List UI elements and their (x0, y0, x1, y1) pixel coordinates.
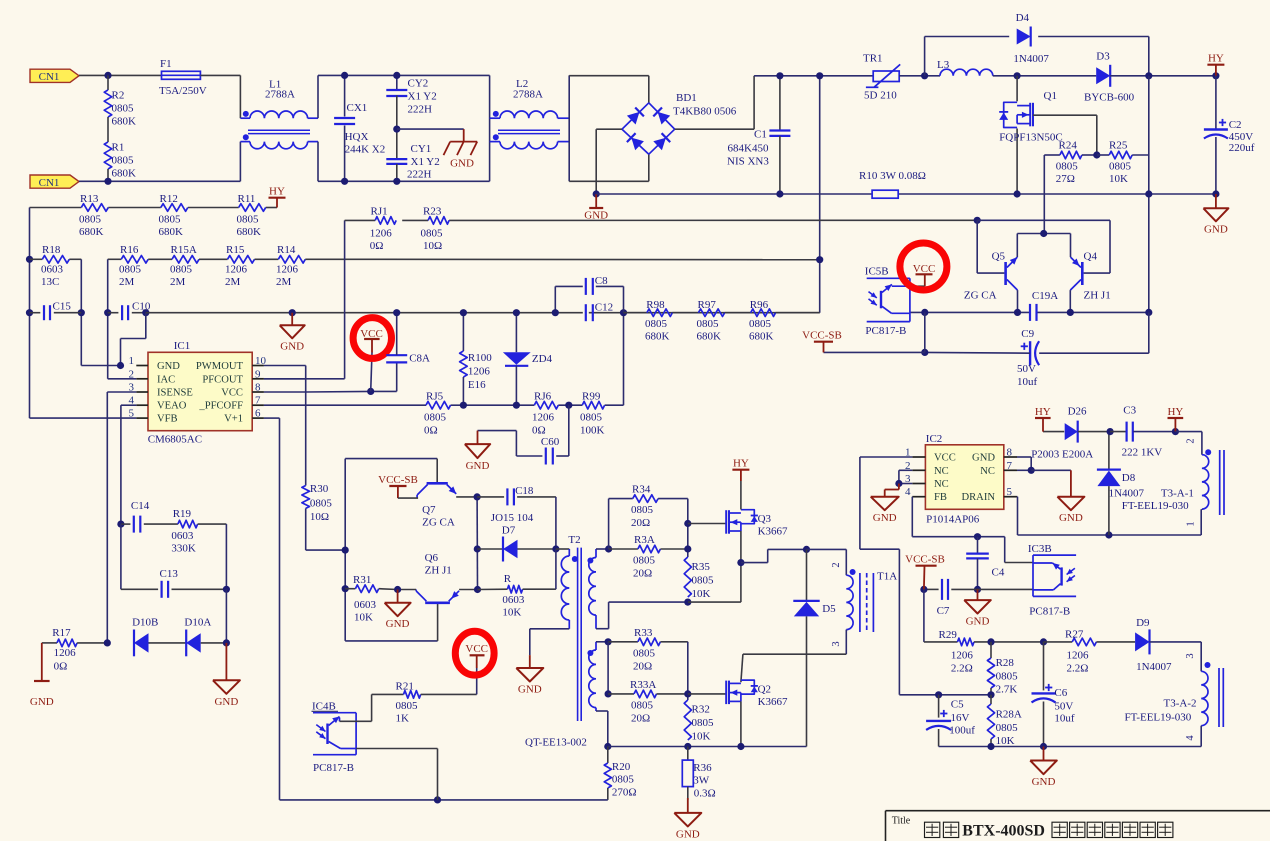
svg-text:BTX-400SD: BTX-400SD (962, 822, 1045, 839)
mosfet Q3 K3667 (726, 510, 788, 538)
node ISENSE/D10B (104, 639, 111, 646)
svg-text:3: 3 (831, 641, 842, 646)
svg-text:C8A: C8A (409, 353, 430, 365)
ground at C2 (1203, 194, 1228, 235)
resistor R21 (396, 681, 477, 725)
svg-text:0603: 0603 (354, 599, 377, 611)
svg-text:HY: HY (1035, 406, 1051, 418)
wire to T3-A-2 pin3 (1200, 642, 1202, 671)
svg-text:27Ω: 27Ω (1056, 173, 1075, 185)
wire pin3 ISENSE (107, 392, 136, 643)
svg-text:GND: GND (214, 696, 238, 708)
resistor R13 row wire (30, 207, 278, 209)
svg-text:0805: 0805 (692, 717, 715, 729)
svg-text:R20: R20 (612, 761, 631, 773)
svg-text:R13: R13 (80, 193, 99, 205)
node C8A top (393, 309, 400, 316)
wire R30 to bases loop (306, 508, 346, 550)
resistor RJ5 (424, 391, 451, 437)
node R3A right (684, 545, 691, 552)
svg-text:1206: 1206 (370, 228, 393, 240)
svg-text:0805: 0805 (996, 671, 1019, 683)
node R25 bottom (1145, 190, 1152, 197)
wire L1 out bottom (318, 142, 490, 182)
node C13/R19 (223, 586, 230, 593)
transistor Q4 (1070, 251, 1110, 302)
label QT-EE13-002 (525, 737, 587, 749)
wire sec-upper bottom to source row (596, 602, 688, 629)
svg-text:8: 8 (255, 382, 261, 394)
svg-text:VCC: VCC (221, 388, 243, 399)
resistor R20 (604, 747, 636, 800)
svg-text:7: 7 (255, 395, 261, 407)
node R100 bottom (460, 402, 467, 409)
base loop wires (345, 459, 437, 641)
svg-text:PWMOUT: PWMOUT (196, 361, 244, 372)
row RJ1/R23 wire (345, 219, 978, 221)
transistor Q7 (417, 459, 477, 529)
wire R1 to CN1-B rail (107, 169, 109, 181)
svg-text:R21: R21 (396, 681, 414, 693)
svg-text:GND: GND (280, 340, 304, 352)
node 2M row / HV sense (816, 256, 823, 263)
capacitor CX1 (334, 75, 385, 181)
wire CN1-B rail (79, 180, 240, 182)
svg-text:R16: R16 (120, 244, 139, 256)
svg-text:0805: 0805 (645, 318, 668, 330)
wire x1149 down to C9 (1039, 312, 1149, 353)
source row bottom (608, 746, 807, 748)
svg-text:244K X2: 244K X2 (345, 144, 386, 156)
svg-text:R29: R29 (939, 629, 958, 641)
ground at C60 (465, 431, 490, 473)
power port VCC-SB at C7 (905, 554, 945, 590)
capacitor CY2 (386, 75, 436, 129)
svg-text:GND: GND (1032, 776, 1056, 788)
resistor R99 (580, 391, 605, 437)
ground at D10A (213, 643, 240, 708)
svg-text:330K: 330K (171, 543, 196, 555)
wire R2-R1 (107, 117, 109, 142)
svg-text:222 1KV: 222 1KV (1122, 447, 1163, 459)
svg-text:1N4007: 1N4007 (1013, 53, 1049, 65)
svg-text:C14: C14 (131, 500, 150, 512)
svg-text:R36: R36 (693, 762, 712, 774)
svg-text:0Ω: 0Ω (532, 425, 546, 437)
svg-text:GND: GND (30, 696, 54, 708)
svg-text:ZH J1: ZH J1 (425, 565, 452, 577)
node D4 branch left (921, 72, 928, 79)
node C6 top (1040, 638, 1047, 645)
svg-text:1N4007: 1N4007 (1136, 661, 1172, 673)
svg-text:X1 Y2: X1 Y2 (408, 91, 437, 103)
resistor R1 (104, 142, 136, 180)
svg-text:1206: 1206 (225, 264, 248, 276)
resistor RJ1 (370, 205, 396, 251)
svg-text:1206: 1206 (951, 650, 974, 662)
wire rail to L1 bottom (239, 142, 241, 182)
ground at row (280, 313, 305, 353)
diode D8 (1097, 432, 1145, 535)
svg-text:_PFCOFF: _PFCOFF (198, 401, 243, 412)
capacitor C9 (925, 328, 1039, 388)
svg-text:X1 Y2: X1 Y2 (411, 156, 440, 168)
svg-text:R35: R35 (692, 561, 711, 573)
wire HV sense vertical (819, 76, 821, 313)
node CN1-B/R1 (104, 178, 111, 185)
wire Q5 collector down (1017, 290, 1019, 312)
node drive top (474, 493, 481, 500)
resistor R28A (987, 695, 1022, 747)
svg-text:1K: 1K (396, 713, 410, 725)
svg-text:PC817-B: PC817-B (1029, 606, 1070, 618)
node Q4 collector (1067, 309, 1074, 316)
svg-text:0805: 0805 (631, 700, 654, 712)
capacitor C4 (966, 537, 1005, 590)
node C14 junction (117, 521, 124, 528)
node R33A left (605, 690, 612, 697)
svg-text:VCC: VCC (913, 263, 936, 275)
svg-text:2M: 2M (276, 276, 292, 288)
node C1 top (776, 72, 783, 79)
svg-text:1206: 1206 (54, 647, 77, 659)
transformer T2 secondary lower (587, 642, 596, 711)
wire opto emitter tie (924, 312, 926, 352)
svg-text:VCC-SB: VCC-SB (905, 554, 945, 566)
svg-text:C9: C9 (1021, 328, 1034, 340)
resistor R19 (171, 508, 226, 589)
svg-text:PC817-B: PC817-B (865, 325, 906, 337)
transistor Q5 (964, 251, 1018, 302)
svg-text:D5: D5 (822, 603, 836, 615)
svg-text:V+1: V+1 (224, 414, 243, 425)
svg-text:R15: R15 (226, 244, 245, 256)
resistor R33A (608, 679, 688, 725)
optocoupler IC3B (1028, 543, 1076, 618)
wire to Q4 base (977, 220, 1110, 273)
svg-text:2788A: 2788A (513, 89, 543, 101)
red ring annotation bottom (455, 631, 494, 675)
svg-text:GND: GND (466, 460, 490, 472)
svg-text:0Ω: 0Ω (424, 425, 438, 437)
svg-text:100K: 100K (580, 425, 605, 437)
emitter rail to R24 (1017, 234, 1070, 258)
svg-text:R34: R34 (632, 484, 651, 496)
wire Q2 source (740, 701, 742, 746)
svg-text:2: 2 (1186, 438, 1197, 443)
inductor L2 common-mode choke (490, 75, 570, 181)
svg-text:CN1: CN1 (39, 71, 60, 83)
node C1 bottom (776, 190, 783, 197)
svg-text:R96: R96 (750, 299, 769, 311)
svg-text:Q2: Q2 (758, 684, 771, 696)
wire TR1 to L3 (899, 75, 940, 77)
capacitor CY1 (386, 129, 439, 181)
svg-text:GND: GND (1204, 223, 1228, 235)
diode D9 (1135, 617, 1201, 673)
svg-text:Q3: Q3 (758, 513, 772, 525)
svg-text:NC: NC (934, 479, 949, 490)
svg-text:C60: C60 (541, 436, 560, 448)
node ZD4 top (513, 309, 520, 316)
node RJ6/R99/C60 (565, 402, 572, 409)
svg-text:GND: GND (157, 361, 180, 372)
svg-text:E16: E16 (468, 379, 486, 391)
svg-text:R30: R30 (310, 483, 329, 495)
node CN1-L/R2 (104, 72, 111, 79)
ground at standby (1030, 747, 1057, 789)
resistor RJ6 (532, 391, 558, 437)
capacitor C1 (727, 76, 790, 194)
svg-text:C4: C4 (992, 567, 1005, 579)
svg-text:C13: C13 (160, 568, 179, 580)
wire IC4B emitter (356, 749, 437, 800)
svg-text:0805: 0805 (1109, 161, 1132, 173)
node Q1 source (1014, 190, 1021, 197)
resistor R27 (1044, 629, 1136, 675)
svg-text:BYCB-600: BYCB-600 (1084, 92, 1135, 104)
diode D3 (1084, 51, 1135, 104)
svg-text:R28: R28 (996, 657, 1015, 669)
svg-text:R3A: R3A (634, 534, 655, 546)
svg-text:R17: R17 (52, 627, 71, 639)
capacitor C3 (1110, 405, 1175, 459)
svg-text:0603: 0603 (171, 530, 194, 542)
svg-text:4: 4 (905, 486, 911, 498)
node R24/R25 gate (1093, 151, 1100, 158)
svg-text:IC3B: IC3B (1028, 543, 1052, 555)
capacitor C12 (586, 302, 613, 322)
svg-text:R33A: R33A (630, 679, 656, 691)
power port VCC-SB right (802, 330, 842, 353)
node R28 top (987, 638, 994, 645)
svg-text:0805: 0805 (580, 412, 603, 424)
svg-text:680K: 680K (112, 168, 137, 180)
resistor R13 (79, 193, 108, 238)
svg-text:K3667: K3667 (758, 696, 788, 708)
resistor R33 (608, 627, 688, 673)
svg-text:D4: D4 (1016, 12, 1030, 24)
node C6 bottom / gnd (1040, 743, 1047, 750)
wire T2 primary to GND (530, 629, 570, 655)
power port HY at Q3 (732, 458, 749, 510)
gate drive node column (476, 497, 478, 590)
wire to T3-A-1 pin2 (1175, 432, 1202, 455)
node C2 bottom (1212, 190, 1219, 197)
svg-text:R25: R25 (1109, 140, 1128, 152)
svg-text:C1: C1 (754, 129, 767, 141)
node C8 left (552, 309, 559, 316)
node drive bottom (474, 586, 481, 593)
svg-text:10K: 10K (996, 735, 1015, 747)
svg-text:5: 5 (129, 408, 135, 420)
ground at BD1 (584, 194, 608, 222)
wire Q6 emitter row (459, 589, 477, 591)
svg-text:CY2: CY2 (408, 78, 429, 90)
svg-text:GND: GND (1059, 512, 1083, 524)
node CY mid (393, 126, 400, 133)
svg-text:680K: 680K (645, 331, 670, 343)
capacitor C8 bypass (555, 275, 623, 313)
wire Q2 gate (688, 693, 726, 695)
svg-text:HQX: HQX (345, 131, 369, 143)
svg-text:IC5B: IC5B (865, 266, 889, 278)
svg-text:R32: R32 (692, 704, 710, 716)
svg-text:C19A: C19A (1032, 290, 1058, 302)
svg-text:R10 3W 0.08Ω: R10 3W 0.08Ω (859, 170, 926, 182)
node R35 bottom (684, 599, 691, 606)
svg-text:0805: 0805 (310, 498, 333, 510)
power port VCC at IC1 (360, 328, 383, 391)
node FB/C4 (974, 533, 981, 540)
wire D3 to HY node (1110, 75, 1216, 77)
inductor L3 (937, 59, 993, 76)
transformer T2 primary (561, 534, 580, 629)
node Q2 gate row (684, 690, 691, 697)
svg-text:10uf: 10uf (1054, 713, 1075, 725)
wire to T1A pin2 (807, 549, 847, 575)
svg-text:D10B: D10B (132, 617, 158, 629)
node ZD4 bottom (513, 402, 520, 409)
wire to T2 primary (556, 548, 569, 550)
standby gnd row (939, 746, 1202, 748)
svg-text:3W: 3W (693, 775, 710, 787)
svg-text:FB: FB (934, 492, 947, 503)
power port HY at R11 (269, 186, 286, 208)
svg-text:GND: GND (450, 158, 474, 170)
svg-text:0805: 0805 (1056, 161, 1079, 173)
svg-text:GND: GND (518, 684, 542, 696)
diode D5 (793, 549, 836, 746)
wire C10 to pin1 (121, 313, 146, 366)
capacitor C13 (121, 524, 226, 598)
svg-text:0603: 0603 (502, 594, 525, 606)
svg-text:R97: R97 (698, 299, 717, 311)
svg-text:0805: 0805 (112, 103, 135, 115)
svg-text:GND: GND (386, 618, 410, 630)
node Q3 gate row (684, 520, 691, 527)
capacitor C10 (108, 301, 151, 321)
svg-text:D9: D9 (1136, 617, 1150, 629)
wire R24 to driver (1043, 155, 1045, 234)
power port HY at D26 (1035, 406, 1051, 432)
svg-text:10K: 10K (1109, 173, 1128, 185)
wire BD1 minus to GND rail (596, 129, 622, 194)
svg-text:8: 8 (1007, 447, 1013, 459)
svg-text:T3-A-1: T3-A-1 (1161, 488, 1194, 500)
svg-text:R12: R12 (160, 193, 178, 205)
svg-text:ISENSE: ISENSE (157, 388, 193, 399)
wire CN1-L to F1 (79, 74, 162, 76)
svg-text:680K: 680K (112, 116, 137, 128)
node drain/D8 (1105, 531, 1112, 538)
svg-text:GND: GND (676, 828, 700, 840)
svg-text:FT-EEL19-030: FT-EEL19-030 (1122, 500, 1189, 512)
wire F1 to L1 (200, 75, 240, 118)
ic IC2 P1014AP06 (905, 433, 1017, 526)
node C3/HY (1172, 428, 1179, 435)
svg-text:680K: 680K (79, 226, 104, 238)
resistor R100 (460, 313, 493, 406)
wire sec-lower bottom (596, 711, 608, 747)
node pins8-7 (1028, 467, 1035, 474)
power port VCC at IC5B (910, 263, 935, 286)
svg-text:VCC: VCC (465, 643, 488, 655)
svg-text:L3: L3 (937, 59, 950, 71)
svg-text:684K450: 684K450 (728, 143, 769, 155)
wire VCC-SB to R29 (923, 589, 925, 642)
svg-text:HY: HY (733, 458, 749, 470)
svg-text:ZG CA: ZG CA (422, 517, 455, 529)
resistor R3A (609, 534, 688, 580)
svg-text:2788A: 2788A (265, 89, 295, 101)
power port HY main (1207, 53, 1224, 76)
svg-text:0805: 0805 (112, 155, 135, 167)
row C19A (910, 311, 1149, 313)
svg-text:50V: 50V (1017, 363, 1036, 375)
svg-text:T4KB80 0506: T4KB80 0506 (673, 106, 737, 118)
node D3/D4 cathode (1145, 72, 1152, 79)
resistor R32 (684, 700, 714, 743)
capacitor C18 (477, 485, 556, 549)
node pins2-3 (895, 480, 902, 487)
svg-text:HY: HY (269, 186, 285, 198)
node R23 row split (974, 217, 981, 224)
svg-text:2: 2 (831, 562, 842, 567)
mosfet Q1 (999, 76, 1063, 194)
svg-text:220uf: 220uf (1229, 142, 1255, 154)
svg-text:R98: R98 (646, 299, 665, 311)
svg-text:VCC: VCC (934, 453, 956, 464)
svg-text:680K: 680K (749, 331, 774, 343)
svg-text:T5A/250V: T5A/250V (159, 85, 207, 97)
diode D4 (925, 12, 1149, 76)
node Q3 source jog (737, 559, 744, 566)
svg-text:TR1: TR1 (863, 53, 883, 65)
svg-text:20Ω: 20Ω (631, 517, 650, 529)
optocoupler IC5B (865, 266, 911, 338)
wire IC2 pin5 DRAIN (1017, 497, 1201, 535)
node VCC-SB/C7 (920, 586, 927, 593)
svg-text:0805: 0805 (79, 214, 102, 226)
fuse F1 (159, 58, 207, 97)
wire Q3 source (688, 531, 741, 602)
svg-text:VCC-SB: VCC-SB (802, 330, 842, 342)
svg-text:D3: D3 (1096, 51, 1110, 63)
wire to Q5 base (977, 220, 1004, 273)
diode D26 (1031, 406, 1110, 461)
svg-text:R99: R99 (582, 391, 601, 403)
svg-text:R24: R24 (1059, 140, 1078, 152)
ground at Q6 (385, 590, 411, 631)
resistor R10 (859, 170, 926, 198)
svg-text:CY1: CY1 (411, 143, 432, 155)
node C10 right (142, 309, 149, 316)
svg-text:C2: C2 (1229, 119, 1242, 131)
varistor TR1 (863, 53, 900, 102)
resistors R98 R97 R96 row (624, 309, 820, 317)
svg-text:0.3Ω: 0.3Ω (694, 788, 716, 800)
svg-text:FT-EEL19-030: FT-EEL19-030 (1125, 712, 1192, 724)
svg-text:K3667: K3667 (758, 526, 788, 538)
svg-text:PFCOUT: PFCOUT (202, 374, 243, 385)
svg-text:680K: 680K (159, 226, 184, 238)
svg-text:10K: 10K (502, 607, 521, 619)
wire source jog to T1A node (741, 549, 807, 562)
svg-text:R28A: R28A (996, 709, 1022, 721)
svg-text:0805: 0805 (633, 648, 656, 660)
resistor R25 (1097, 140, 1149, 186)
